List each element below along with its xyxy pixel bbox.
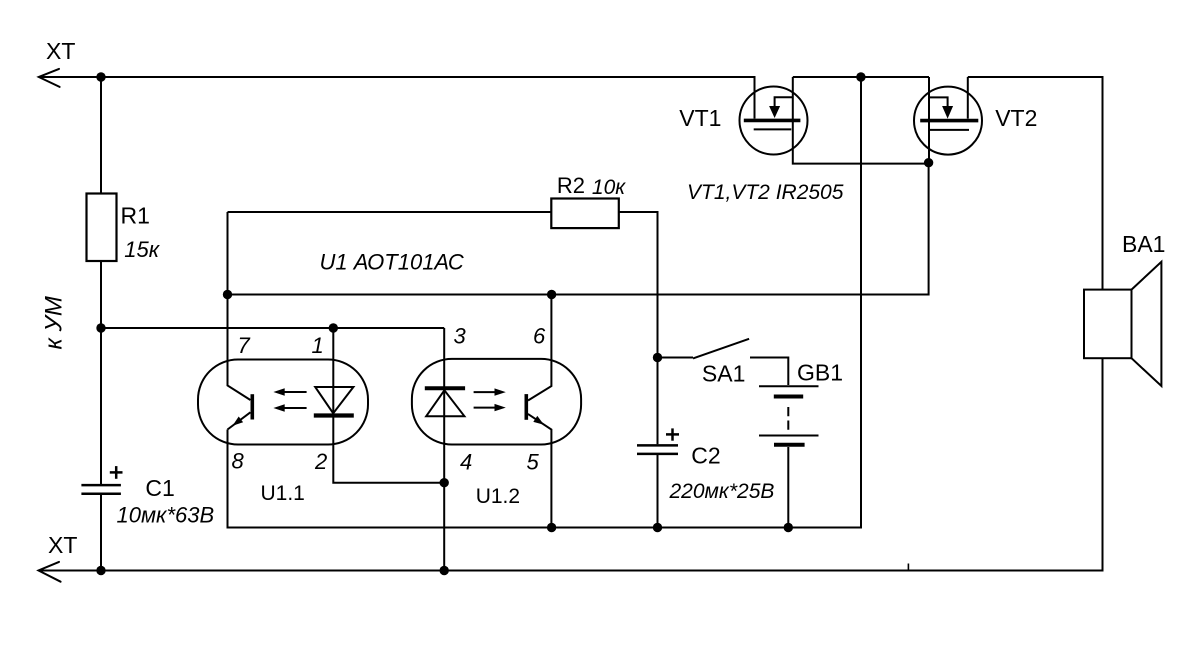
svg-text:VT1,VT2 IR2505: VT1,VT2 IR2505 [687, 181, 844, 204]
svg-text:6: 6 [533, 324, 546, 349]
svg-text:U1.2: U1.2 [476, 485, 520, 508]
svg-text:1: 1 [312, 333, 324, 358]
svg-text:4: 4 [460, 450, 472, 475]
svg-text:U1 АОТ101АС: U1 АОТ101АС [320, 250, 464, 275]
svg-text:XT: XT [48, 532, 77, 558]
svg-text:VT1: VT1 [679, 105, 721, 131]
svg-text:U1.1: U1.1 [261, 482, 305, 505]
svg-text:220мк*25В: 220мк*25В [669, 480, 775, 503]
svg-text:XT: XT [46, 38, 75, 64]
svg-text:15к: 15к [124, 237, 160, 262]
svg-text:SA1: SA1 [702, 361, 745, 387]
svg-text:5: 5 [527, 450, 540, 475]
svg-text:7: 7 [238, 333, 251, 358]
svg-text:10мк*63В: 10мк*63В [117, 503, 215, 528]
svg-text:8: 8 [232, 449, 245, 474]
svg-text:2: 2 [314, 449, 327, 474]
svg-text:R1: R1 [121, 203, 150, 229]
svg-text:10к: 10к [592, 176, 626, 199]
svg-text:VT2: VT2 [995, 105, 1037, 131]
svg-text:к УМ: к УМ [41, 296, 68, 349]
svg-text:C1: C1 [145, 475, 174, 501]
svg-text:GB1: GB1 [797, 360, 843, 386]
svg-text:R2: R2 [557, 173, 585, 198]
svg-text:3: 3 [454, 324, 467, 349]
svg-text:BA1: BA1 [1122, 231, 1165, 257]
svg-text:C2: C2 [691, 443, 720, 469]
